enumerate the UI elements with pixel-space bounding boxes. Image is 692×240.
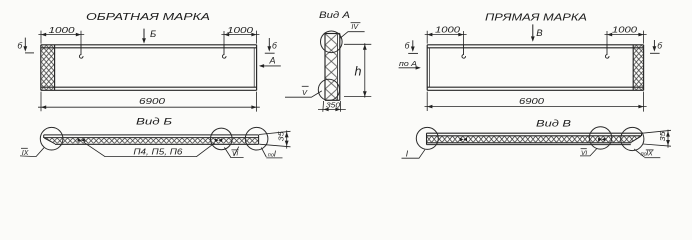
- svg-text:6900: 6900: [139, 96, 165, 106]
- svg-text:1000: 1000: [49, 26, 76, 35]
- label IV with leader: [340, 32, 365, 39]
- detail circle bottom (V): [318, 79, 339, 100]
- dimension 35 (right end): [642, 130, 671, 148]
- strip side view (mirrored): [427, 133, 642, 144]
- dimension 6900 (left panel): [38, 92, 260, 112]
- svg-text:по А: по А: [399, 59, 417, 68]
- hatched end cap (left): [41, 45, 54, 90]
- svg-text:h: h: [355, 65, 362, 79]
- detail circle middle-right: [211, 128, 233, 150]
- svg-text:1000: 1000: [435, 25, 461, 34]
- svg-text:VI: VI: [581, 150, 587, 157]
- svg-text:П4, П5, П6: П4, П5, П6: [133, 147, 183, 156]
- svg-text:6900: 6900: [519, 96, 544, 106]
- dimension 35 (right end): [259, 130, 291, 148]
- panel outline (plan view, right mark): [427, 45, 643, 91]
- panel outline (plan view, left mark): [41, 45, 257, 91]
- label IX with leader: [20, 148, 44, 157]
- dimension 1000 (right): [605, 31, 647, 47]
- svg-text:ПРЯМАЯ МАРКА: ПРЯМАЯ МАРКА: [485, 12, 587, 24]
- callout bracket P4,P5,P6: [84, 142, 215, 156]
- detail circle right end: [621, 127, 644, 150]
- detail circle middle-right: [589, 127, 611, 149]
- label VI with leader: [580, 148, 597, 156]
- detail circle left end: [416, 127, 438, 149]
- section column: [325, 34, 340, 101]
- dimension h (right of column): [344, 43, 371, 97]
- label I with leader: [402, 150, 425, 159]
- svg-text:Б: Б: [150, 29, 156, 40]
- svg-text:Вид В: Вид В: [536, 119, 571, 129]
- dimension 350: [318, 101, 346, 112]
- svg-text:IX: IX: [646, 151, 653, 158]
- dimension 1000 (left): [38, 31, 84, 47]
- dimension 6900 (right panel): [425, 92, 647, 112]
- anchor mark left: [78, 138, 85, 142]
- svg-text:1000: 1000: [227, 26, 254, 35]
- section arrow B (down): [143, 29, 145, 39]
- label po I with leader: [261, 148, 266, 157]
- svg-text:35: 35: [279, 131, 286, 141]
- svg-text:IX: IX: [22, 150, 29, 157]
- lifting loop left: [462, 45, 466, 58]
- lifting loop right: [605, 45, 609, 58]
- strip side view: [44, 135, 259, 144]
- svg-text:350: 350: [326, 100, 341, 109]
- svg-text:35: 35: [660, 131, 667, 141]
- label V with leader: [285, 91, 322, 97]
- section arrow V (down): [532, 24, 534, 36]
- anchor mark right: [215, 138, 222, 142]
- dimension 1000 (left): [425, 31, 467, 47]
- svg-text:VI: VI: [232, 151, 238, 158]
- svg-text:1000: 1000: [612, 25, 638, 34]
- svg-text:А: А: [269, 55, 276, 65]
- lifting loop left: [79, 45, 83, 58]
- label VI with leader: [224, 147, 230, 157]
- hatched end cap (right): [634, 45, 644, 90]
- svg-text:ОБРАТНАЯ МАРКА: ОБРАТНАЯ МАРКА: [86, 11, 210, 23]
- detail circle right end: [245, 127, 268, 150]
- label po IX with leader: [634, 149, 645, 157]
- dimension 1000 (right): [221, 31, 259, 47]
- lifting loop right: [222, 45, 226, 58]
- anchor mark right: [598, 138, 605, 142]
- svg-text:Вид А: Вид А: [319, 10, 350, 20]
- detail circle left end: [40, 127, 63, 150]
- svg-text:Вид Б: Вид Б: [136, 117, 172, 127]
- detail circle top (IV): [321, 31, 343, 53]
- anchor mark left: [460, 138, 467, 142]
- svg-text:В: В: [536, 28, 543, 39]
